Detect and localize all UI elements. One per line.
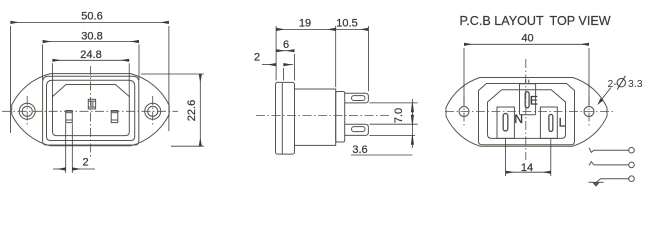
svg-text:3.3: 3.3 xyxy=(628,78,643,90)
svg-text:2-: 2- xyxy=(608,78,618,90)
svg-text:40: 40 xyxy=(521,33,533,45)
svg-text:7.0: 7.0 xyxy=(393,108,405,123)
svg-text:P.C.B LAYOUT: P.C.B LAYOUT xyxy=(460,14,545,28)
svg-text:L: L xyxy=(559,115,566,129)
svg-text:6: 6 xyxy=(283,39,289,51)
svg-text:2: 2 xyxy=(254,52,260,64)
svg-text:22.6: 22.6 xyxy=(186,100,198,121)
svg-text:E: E xyxy=(530,94,538,108)
svg-text:50.6: 50.6 xyxy=(81,10,102,22)
svg-text:10.5: 10.5 xyxy=(336,17,357,29)
svg-text:14: 14 xyxy=(521,162,533,174)
svg-text:TOP VIEW: TOP VIEW xyxy=(550,14,611,28)
svg-text:24.8: 24.8 xyxy=(80,49,101,61)
svg-text:2: 2 xyxy=(82,157,88,169)
svg-text:30.8: 30.8 xyxy=(81,30,102,42)
svg-text:N: N xyxy=(514,112,523,126)
svg-text:3.6: 3.6 xyxy=(352,144,367,156)
svg-text:19: 19 xyxy=(299,17,311,29)
